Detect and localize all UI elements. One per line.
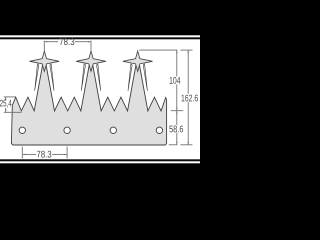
needle right 1 bbox=[50, 64, 54, 91]
part body: serrated knife-back bar with three spike towers bbox=[11, 63, 166, 146]
dim text 58.6 bbox=[169, 126, 183, 133]
star ornament 3 bbox=[123, 51, 153, 71]
needle right 3 bbox=[143, 64, 147, 91]
hole 1 bbox=[19, 127, 25, 133]
right dimensions: top extension line from star tip bbox=[139, 50, 192, 145]
hole 3 bbox=[110, 127, 116, 133]
needle right 2 bbox=[97, 64, 101, 91]
hole 2 bbox=[64, 127, 70, 133]
letterbox black background bbox=[0, 0, 200, 200]
dim text 25,4 bbox=[0, 100, 12, 108]
dim text 78.3 top bbox=[60, 38, 75, 45]
top dimension arrows bbox=[45, 41, 48, 42]
star ornament 2 bbox=[76, 51, 106, 71]
dimension line A: 104 over 58.6 bbox=[176, 50, 178, 76]
needle left 1 bbox=[35, 64, 39, 91]
left dimension 25.4: extension lines bbox=[4, 97, 22, 112]
top dimension 78.3: extension ticks bbox=[44, 41, 91, 51]
needle left 3 bbox=[128, 64, 132, 91]
white content band bbox=[0, 35, 200, 163]
bottom extension line bbox=[169, 144, 178, 146]
bottom dimension arrows bbox=[23, 154, 26, 155]
mid tick at valley level bbox=[171, 110, 184, 112]
right dimension arrows bbox=[176, 50, 177, 53]
bottom frame rule bbox=[0, 159, 200, 161]
dim text 162.6 bbox=[182, 95, 198, 102]
dim text 104 bbox=[170, 77, 181, 84]
hole 4 bbox=[156, 127, 162, 133]
left dimension arrows bbox=[5, 97, 6, 100]
bottom dimension 78.3: extension ticks bbox=[22, 147, 67, 159]
needle left 2 bbox=[81, 64, 85, 91]
dimension line B: 162.6 bbox=[187, 50, 189, 94]
star ornament 1 bbox=[30, 51, 60, 71]
top frame rule bbox=[0, 37, 200, 39]
dim text 78.3 bottom bbox=[37, 151, 51, 158]
